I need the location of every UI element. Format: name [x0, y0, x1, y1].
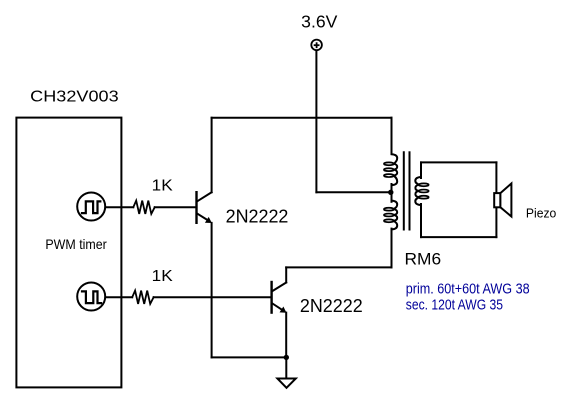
transformer T1 primary top winding [384, 151, 397, 189]
wire secondary loop bottom [421, 236, 496, 238]
resistor R2 1K [132, 291, 153, 304]
wire rail down to primary top [391, 118, 393, 153]
svg-text:3.6V: 3.6V [301, 12, 338, 32]
wire junction to ground [285, 357, 287, 378]
transformer T1 primary bottom winding [384, 197, 397, 233]
transistor Q1 [197, 192, 212, 223]
wire secondary bottom vertical [420, 204, 422, 237]
wire V2 to R2 [106, 296, 132, 298]
svg-text:RM6: RM6 [405, 250, 442, 269]
PWM source V2 [77, 283, 105, 311]
wire center tap [316, 191, 390, 193]
wire R1 to Q1 base [155, 206, 196, 208]
svg-text:sec. 120t AWG 35: sec. 120t AWG 35 [406, 298, 503, 314]
svg-text:2N2222: 2N2222 [226, 207, 289, 227]
transistor Q2 [272, 282, 287, 313]
svg-text:1K: 1K [152, 268, 173, 285]
wire V1 to R1 [106, 206, 134, 208]
svg-text:2N2222: 2N2222 [300, 296, 363, 316]
svg-text:PWM timer: PWM timer [45, 236, 107, 252]
wire bottom to emitter junction [212, 356, 287, 358]
junction center tap [388, 190, 393, 195]
wire top rail [212, 117, 392, 119]
wire secondary loop top [421, 161, 496, 163]
junction emitters [284, 355, 289, 360]
transformer T1 core [404, 152, 410, 229]
wire primary bottom to collector wire [391, 229, 393, 268]
wire Q2 emitter down [285, 313, 287, 358]
wire 3.6V down [315, 51, 317, 192]
wire secondary loop right [495, 162, 497, 237]
wire Q1 emitter down [211, 223, 213, 358]
resistor R1 1K [133, 201, 154, 214]
ground [277, 379, 295, 388]
wire secondary top vertical [420, 162, 422, 178]
wire Q1 collector up [211, 118, 213, 193]
wire Q2 collector horizontal [286, 266, 391, 268]
wire Q2 collector up [285, 267, 287, 282]
PWM source V1 [77, 193, 105, 221]
power supply 3.6V terminal [311, 40, 322, 51]
IC box CH32V003 [16, 118, 121, 388]
wire center tap to coils [391, 184, 393, 202]
speaker (piezo) [494, 184, 511, 217]
transformer T1 secondary winding [415, 174, 428, 209]
svg-text:CH32V003: CH32V003 [30, 89, 119, 106]
svg-text:Piezo: Piezo [526, 206, 556, 221]
svg-text:prim. 60t+60t AWG 38: prim. 60t+60t AWG 38 [406, 282, 530, 298]
svg-text:1K: 1K [152, 178, 173, 195]
wire R2 to Q2 base [154, 296, 271, 298]
